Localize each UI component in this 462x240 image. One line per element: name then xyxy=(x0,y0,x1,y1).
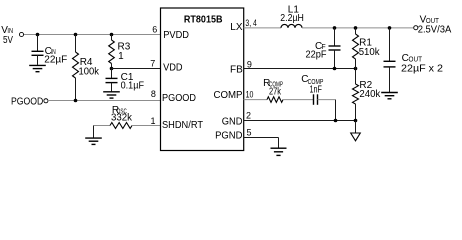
ground (C1) xyxy=(103,91,120,93)
svg-text:8: 8 xyxy=(151,89,156,99)
wire R4 top xyxy=(75,35,77,53)
op-amp U1 RT8015B box xyxy=(161,8,244,151)
junction VIN/R4 xyxy=(74,33,78,37)
svg-text:2: 2 xyxy=(246,110,251,120)
terminal VOUT xyxy=(414,26,418,30)
svg-text:22µF x 2: 22µF x 2 xyxy=(401,63,443,74)
wire R1 bottom xyxy=(355,59,357,69)
junction R4/PGOOD xyxy=(74,99,78,103)
junction COUT/VOUT rail xyxy=(388,26,392,30)
terminal PGOOD xyxy=(44,99,48,103)
wire AGND stub xyxy=(355,121,357,134)
svg-text:0.1µF: 0.1µF xyxy=(121,81,144,92)
wire LX line xyxy=(244,27,281,29)
junction R1/R2/FB xyxy=(354,67,358,71)
svg-text:5: 5 xyxy=(247,128,252,138)
junction R2/GND xyxy=(354,119,358,123)
svg-text:2.2µH: 2.2µH xyxy=(280,13,304,24)
svg-text:VDD: VDD xyxy=(163,62,183,73)
wire COUT top xyxy=(389,28,391,61)
wire SHDN right xyxy=(132,125,161,127)
svg-text:2.5V/3A: 2.5V/3A xyxy=(418,24,452,35)
svg-text:10: 10 xyxy=(246,90,254,100)
junction VIN/CIN xyxy=(36,33,40,37)
wire CF top xyxy=(334,28,336,46)
svg-text:510k: 510k xyxy=(359,47,381,58)
ground (Rosc) xyxy=(85,137,102,139)
svg-text:22pF: 22pF xyxy=(306,49,327,60)
svg-text:3, 4: 3, 4 xyxy=(245,18,256,28)
resistor R1 xyxy=(353,34,359,59)
wire Rosc ground stub xyxy=(93,126,95,138)
wire VOUT rail xyxy=(302,27,414,29)
wire VIN rail (PVDD net) xyxy=(24,34,161,36)
resistor R4 xyxy=(73,52,79,78)
svg-text:22µF: 22µF xyxy=(44,55,67,66)
inductor L1 xyxy=(281,24,302,27)
wire PGND line xyxy=(244,137,279,139)
resistor R3 xyxy=(109,40,115,64)
svg-text:FB: FB xyxy=(230,64,243,75)
junction VDD node xyxy=(110,67,114,71)
capacitor CF xyxy=(329,45,341,47)
svg-text:LX: LX xyxy=(230,22,243,33)
junction R3/VIN rail xyxy=(110,33,114,37)
ground AGND triangle xyxy=(351,133,361,141)
wire VDD line xyxy=(112,68,161,70)
wire R4 bottom xyxy=(75,78,77,101)
wire COMP segment 2 xyxy=(283,99,313,101)
wire R3 top xyxy=(111,35,113,41)
wire SHDN left xyxy=(94,125,111,127)
svg-text:240k: 240k xyxy=(359,89,381,100)
svg-text:1: 1 xyxy=(150,116,155,126)
junction Ccomp/GND xyxy=(334,119,338,123)
junction R1/VOUT rail xyxy=(354,26,358,30)
capacitor COUT xyxy=(384,60,396,62)
wire COMP segment 3 xyxy=(318,99,336,101)
svg-text:RT8015B: RT8015B xyxy=(184,14,223,25)
svg-text:332k: 332k xyxy=(111,113,133,124)
svg-text:7: 7 xyxy=(150,58,155,68)
svg-text:27k: 27k xyxy=(269,87,282,98)
wire GND line xyxy=(244,120,356,122)
svg-text:6: 6 xyxy=(152,25,157,35)
ground (CIN) xyxy=(29,64,46,66)
wire Ccomp down xyxy=(335,100,337,121)
capacitor Ccomp xyxy=(313,94,315,105)
svg-text:PGND: PGND xyxy=(215,130,242,141)
svg-text:100k: 100k xyxy=(79,66,100,77)
wire FB line xyxy=(244,68,356,70)
wire CIN top xyxy=(37,35,39,52)
ground (PGND) xyxy=(271,147,287,149)
wire PGOOD line xyxy=(48,100,161,102)
svg-text:PVDD: PVDD xyxy=(163,30,189,41)
svg-text:1: 1 xyxy=(118,51,124,62)
wire R2 top xyxy=(355,69,357,85)
svg-text:COMP: COMP xyxy=(214,90,243,101)
wire COMP segment 1 xyxy=(244,99,267,101)
wire R2 bottom xyxy=(355,104,357,121)
ground (COUT) xyxy=(381,92,398,94)
junction CF/FB xyxy=(333,67,337,71)
wire C1 top xyxy=(111,69,113,79)
svg-text:5V: 5V xyxy=(3,35,13,46)
svg-text:GND: GND xyxy=(222,116,243,127)
resistor Rcomp xyxy=(267,97,283,103)
junction CF/VOUT rail xyxy=(333,26,337,30)
svg-text:PGOOD: PGOOD xyxy=(11,97,43,108)
svg-text:1nF: 1nF xyxy=(310,84,322,95)
svg-text:PGOOD: PGOOD xyxy=(162,93,196,104)
wire R1 top xyxy=(355,28,357,34)
wire R3 bottom xyxy=(111,64,113,69)
resistor R2 xyxy=(353,84,359,104)
svg-text:SHDN/RT: SHDN/RT xyxy=(162,120,203,131)
resistor Rosc xyxy=(110,123,132,129)
capacitor C1 xyxy=(106,77,118,79)
terminal VIN xyxy=(19,32,23,36)
capacitor CIN xyxy=(32,50,44,52)
